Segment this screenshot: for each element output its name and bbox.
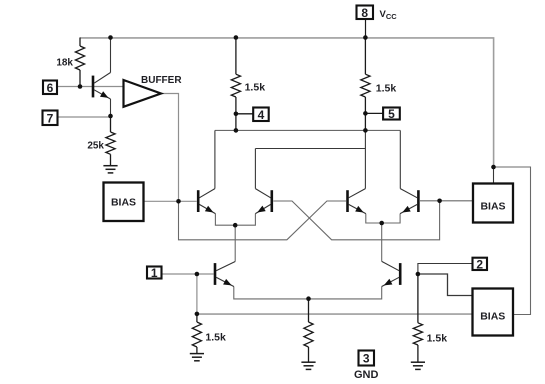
svg-text:BIAS: BIAS [480, 201, 505, 213]
svg-text:4: 4 [258, 108, 265, 122]
svg-text:1.5k: 1.5k [427, 332, 448, 344]
svg-text:3: 3 [363, 352, 370, 366]
svg-text:7: 7 [47, 111, 54, 125]
svg-text:1.5k: 1.5k [245, 82, 266, 94]
svg-text:18k: 18k [56, 57, 73, 68]
svg-text:25k: 25k [87, 141, 104, 152]
svg-text:2: 2 [476, 257, 483, 271]
svg-text:5: 5 [388, 107, 395, 121]
svg-text:1.5k: 1.5k [205, 332, 226, 344]
svg-text:BIAS: BIAS [480, 311, 505, 323]
svg-text:1: 1 [151, 266, 158, 280]
svg-text:1.5k: 1.5k [376, 83, 397, 95]
svg-text:GND: GND [354, 369, 379, 381]
svg-text:BUFFER: BUFFER [141, 75, 182, 86]
svg-text:6: 6 [47, 81, 54, 95]
svg-text:BIAS: BIAS [111, 196, 136, 208]
svg-text:8: 8 [361, 6, 368, 20]
